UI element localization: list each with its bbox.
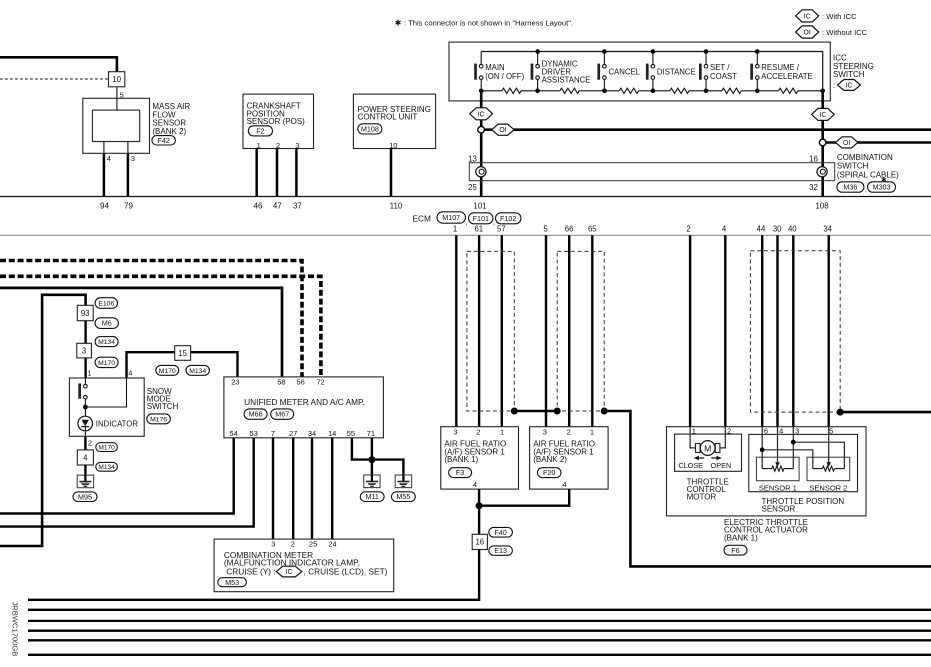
connector F40 <box>489 527 513 537</box>
svg-text:3: 3 <box>131 154 135 163</box>
svg-text:IC: IC <box>846 83 853 90</box>
svg-text:24: 24 <box>328 540 336 549</box>
svg-text:94: 94 <box>100 202 109 211</box>
resistor sensor 1 <box>762 468 772 470</box>
svg-text:3: 3 <box>453 428 457 437</box>
ground M55 <box>395 475 411 488</box>
junction dot inside snow switch <box>83 405 88 410</box>
junction dot TPS supply <box>760 447 765 452</box>
wire: ECM 61 to A/F bank1 pin 2 <box>478 235 480 426</box>
svg-text:INDICATOR: INDICATOR <box>96 419 139 428</box>
OI hexagon on right branch <box>836 137 858 148</box>
wire: switch top rail <box>481 52 823 91</box>
svg-text:F40: F40 <box>494 528 506 537</box>
svg-text:F102: F102 <box>500 214 516 223</box>
air fuel ratio sensor 1 bank 2 box <box>530 427 609 489</box>
wire: right switch drop to pin 108 <box>821 91 824 197</box>
combination switch (spiral cable) box <box>469 163 834 181</box>
IC hexagon label <box>838 80 861 91</box>
resistor sensor 2 <box>813 468 823 470</box>
wire: TPS shield to right edge <box>840 411 931 414</box>
svg-text:61: 61 <box>474 225 483 234</box>
svg-text:2: 2 <box>276 141 280 150</box>
junction dot grounds <box>368 456 375 463</box>
wire: meter 53 to left edge <box>0 438 254 527</box>
spiral cable symbol right <box>817 167 827 177</box>
svg-text::: : <box>833 81 835 90</box>
svg-text:CONTROL UNIT: CONTROL UNIT <box>358 113 418 122</box>
bottom rail line 6 <box>28 654 931 656</box>
wire: to ground M95 <box>84 465 86 475</box>
svg-text:27: 27 <box>289 429 297 438</box>
svg-text:M6: M6 <box>102 319 112 328</box>
wire: left loop to connector 93 and down to bottom left <box>0 295 86 546</box>
svg-text:OI: OI <box>843 140 850 147</box>
svg-text:2: 2 <box>567 428 571 437</box>
svg-text:(BANK 2): (BANK 2) <box>533 455 567 464</box>
wire: shield link between boxes <box>514 410 557 413</box>
wire: MAF pin 3 inside <box>127 142 129 154</box>
svg-text:M170: M170 <box>98 360 115 367</box>
svg-text:COAST: COAST <box>710 72 737 81</box>
shield dashed box around TPS wires <box>750 251 840 412</box>
svg-text:15: 15 <box>178 349 187 358</box>
svg-text:2: 2 <box>88 438 92 447</box>
svg-text:CANCEL: CANCEL <box>608 67 640 76</box>
wire: connector 16 down to bottom rail <box>28 550 479 600</box>
svg-text:E106: E106 <box>98 300 114 307</box>
svg-text:10: 10 <box>112 75 121 84</box>
wire: without-ICC branch right <box>826 141 931 144</box>
sensor 2 box <box>807 457 850 481</box>
switch S5 SET / <box>704 49 709 54</box>
svg-text:16: 16 <box>809 154 818 163</box>
wire: connector 10 to MAF sensor pin 5 <box>116 87 118 110</box>
svg-text:(BANK 2): (BANK 2) <box>152 127 186 136</box>
wire: branch to ground M55 <box>372 460 404 475</box>
svg-text:M95: M95 <box>78 492 92 501</box>
svg-text:1: 1 <box>87 368 91 377</box>
ground M11 <box>364 475 380 488</box>
svg-text:OI: OI <box>499 127 506 134</box>
connector M134 oval lower <box>96 462 118 471</box>
svg-text:55: 55 <box>347 429 355 438</box>
indicator LED symbol <box>84 407 86 416</box>
wire: snow switch pin 2 down <box>84 436 86 450</box>
svg-text:54: 54 <box>229 429 237 438</box>
svg-text:25: 25 <box>468 183 477 192</box>
svg-text:,: , <box>466 219 468 226</box>
svg-text:ECM: ECM <box>413 214 432 224</box>
svg-text:F42: F42 <box>158 136 170 145</box>
legend OI hexagon <box>796 26 819 38</box>
wire: ECM 34 to TPS pin 5 <box>828 235 830 426</box>
svg-text:M176: M176 <box>150 416 167 423</box>
ECM lower bus line <box>0 234 931 236</box>
svg-text:M53: M53 <box>225 578 239 587</box>
svg-text:M108: M108 <box>361 125 379 134</box>
connector M11 <box>360 492 384 502</box>
svg-text:72: 72 <box>316 378 324 387</box>
wire: left switch drop to pin 101 <box>480 91 483 197</box>
svg-text:M134: M134 <box>189 368 206 375</box>
junction dot shield 2 <box>554 408 561 415</box>
connector F42 <box>152 136 176 145</box>
svg-text:(ON / OFF): (ON / OFF) <box>485 72 524 81</box>
close arrow <box>699 457 705 459</box>
svg-text:3: 3 <box>271 540 275 549</box>
svg-text:53: 53 <box>250 429 258 438</box>
svg-text:F3: F3 <box>456 468 464 477</box>
wire: POS pin 3 to ECM 37 <box>295 149 298 197</box>
wire: POS pin 1 to ECM 46 <box>255 149 258 197</box>
wire: dashed line to connector 10 <box>0 78 109 80</box>
connector M170 oval mid <box>156 365 179 375</box>
svg-text:,: , <box>865 187 867 194</box>
switch S4 DISTANCE <box>651 49 656 54</box>
connector F6 <box>724 545 747 555</box>
svg-text:: This connector is not shown: : This connector is not shown in "Harnes… <box>404 18 573 27</box>
switch S3 CANCEL <box>602 49 607 54</box>
connector E13 <box>489 546 513 555</box>
svg-text:34: 34 <box>308 429 316 438</box>
svg-text:57: 57 <box>497 225 506 234</box>
svg-text:CRUISE (Y) :: CRUISE (Y) : <box>226 566 275 576</box>
combination meter box <box>214 539 394 592</box>
snow mode switch box <box>69 378 144 436</box>
wire: POS pin 2 to ECM 47 <box>276 149 279 197</box>
svg-text:108: 108 <box>815 202 829 211</box>
svg-text:4: 4 <box>562 480 566 489</box>
connector M66 <box>244 409 267 419</box>
svg-text:66: 66 <box>565 225 574 234</box>
svg-text:4: 4 <box>83 453 88 462</box>
svg-text:37: 37 <box>293 202 302 211</box>
wire: snow switch pin 4 internal <box>87 378 127 407</box>
wire: snow pin 4 to meter pin 23 <box>127 352 238 378</box>
svg-text:58: 58 <box>277 378 285 387</box>
wire: ECM 4 to throttle motor pin 2 <box>724 235 726 426</box>
wire: A/F bank2 pin 4 joining <box>479 489 569 506</box>
svg-text:1: 1 <box>590 428 594 437</box>
ICC steering switch outer box <box>449 42 830 101</box>
connector 15 (M170/M134) <box>175 346 191 361</box>
svg-text:101: 101 <box>473 202 487 211</box>
svg-text:25: 25 <box>309 540 317 549</box>
svg-text:16: 16 <box>475 538 484 547</box>
junction dot A/F grounds <box>476 502 483 509</box>
connector 3 (M134/M170) <box>77 343 92 358</box>
svg-text:,: , <box>493 219 495 226</box>
svg-text:47: 47 <box>273 202 282 211</box>
svg-text:3: 3 <box>295 141 299 150</box>
wire: ECM 57 to A/F bank1 pin 1 <box>501 235 503 426</box>
throttle control motor box <box>675 434 742 471</box>
connector M134 <box>95 337 118 347</box>
svg-text:56: 56 <box>297 378 305 387</box>
switch S1 MAIN <box>480 52 482 65</box>
svg-text:: With ICC: : With ICC <box>822 12 857 21</box>
connector M55 <box>392 492 416 502</box>
mass air flow sensor inner element box <box>92 110 139 141</box>
junction dot shield 3 <box>601 408 608 415</box>
connector F3 <box>449 468 472 478</box>
junction circle left <box>478 126 485 133</box>
svg-text:M107: M107 <box>442 213 460 222</box>
svg-text:13: 13 <box>468 154 477 163</box>
svg-text:SWITCH: SWITCH <box>147 402 179 411</box>
wire: meter 34 to combination meter 25 <box>311 438 313 540</box>
connector 93 (E106/M6) <box>77 305 93 320</box>
svg-text:30: 30 <box>773 225 782 234</box>
svg-text:110: 110 <box>390 202 403 211</box>
svg-text:(BANK 1): (BANK 1) <box>724 533 758 542</box>
motor M symbol <box>696 444 701 453</box>
wire: meter 71 to ground M11 <box>371 438 373 475</box>
svg-text:M134: M134 <box>98 339 115 346</box>
svg-text:M55: M55 <box>396 492 410 501</box>
connector 10 <box>109 72 125 87</box>
switch S6 RESUME / <box>755 49 760 54</box>
resistor R2 in ICC switch <box>560 88 579 93</box>
wire: shielded dashed pair to meter pin 56 <box>0 261 302 377</box>
wire: ECM 44 to TPS pin 6 <box>761 235 763 426</box>
snow mode switch contacts <box>84 378 86 384</box>
svg-text:3: 3 <box>543 428 547 437</box>
junction dot rail right end <box>820 89 825 94</box>
svg-text:10: 10 <box>389 141 397 150</box>
svg-text:M67: M67 <box>275 410 289 419</box>
wire: MAF pin 4 inside <box>103 142 105 154</box>
resistor R5 in ICC switch <box>722 88 741 93</box>
wire: motor pin 1 lead <box>690 427 695 448</box>
wire: meter 55 to ground join <box>352 438 372 460</box>
svg-text:M303: M303 <box>873 183 891 192</box>
svg-text:4: 4 <box>473 480 477 489</box>
wire: to snow mode switch pin 1 <box>84 358 86 378</box>
IC hexagon in combination meter <box>276 566 302 577</box>
wire: shield to right edge lower <box>604 411 931 566</box>
svg-text:UNIFIED METER AND A/C AMP.: UNIFIED METER AND A/C AMP. <box>244 397 365 407</box>
wire: PS pin 10 to ECM 110 <box>390 149 393 197</box>
svg-text:M134: M134 <box>98 464 115 471</box>
wire: meter 7 to combination meter 3 <box>272 438 274 540</box>
wire: meter 54 to left edge <box>0 438 234 514</box>
power steering control unit box <box>353 94 435 148</box>
svg-text:SENSOR: SENSOR <box>762 505 796 514</box>
svg-text:M66: M66 <box>249 410 263 419</box>
mass air flow sensor outer box <box>83 98 150 153</box>
junction circle right <box>819 139 826 146</box>
svg-text:ASSISTANCE: ASSISTANCE <box>542 75 591 84</box>
connector M53 <box>218 578 247 587</box>
svg-text:14: 14 <box>328 429 336 438</box>
resistor R1 in ICC switch <box>502 88 521 93</box>
bottom rail line 3 <box>28 620 931 622</box>
throttle position sensor box <box>749 434 858 491</box>
svg-text:IC: IC <box>819 112 826 119</box>
wire: solid line to meter pin 58 <box>0 288 282 377</box>
unified meter and A/C amp box <box>224 377 384 438</box>
resistor R3 in ICC switch <box>619 88 638 93</box>
svg-text:65: 65 <box>588 225 597 234</box>
svg-text:M170: M170 <box>98 445 115 452</box>
resistor R6 in ICC switch <box>779 88 798 93</box>
svg-text:34: 34 <box>823 225 832 234</box>
connector 4 (M170/M134) <box>77 450 93 465</box>
wire: sheet continuation thick line top-left <box>0 57 117 71</box>
connector M134 oval mid <box>186 365 209 375</box>
svg-text:CLOSE: CLOSE <box>678 461 703 470</box>
svg-text:ACCELERATE: ACCELERATE <box>761 72 812 81</box>
svg-text:OI: OI <box>803 30 810 37</box>
svg-text:OPEN: OPEN <box>711 461 732 470</box>
connector E106 <box>95 298 117 309</box>
crankshaft position sensor box <box>243 94 314 148</box>
svg-text:IC: IC <box>804 13 811 20</box>
svg-text:3: 3 <box>82 346 86 355</box>
resistor R4 in ICC switch <box>670 88 689 93</box>
svg-text:4: 4 <box>722 225 727 234</box>
wire: TPS pin3 into sensors <box>792 427 794 443</box>
connector 16 (F40/E13) <box>472 534 487 549</box>
svg-text:F20: F20 <box>543 468 555 477</box>
wire: TPS pin6 into sensors <box>761 427 763 450</box>
connector M67 <box>271 409 294 419</box>
connector F20 <box>537 468 561 478</box>
wire: meter 27 to combination meter 2 <box>292 438 294 540</box>
svg-text:, CRUISE (LCD), SET): , CRUISE (LCD), SET) <box>304 566 388 576</box>
shield dashed box around A/F bank2 wires <box>557 251 604 411</box>
svg-text:1: 1 <box>453 225 457 234</box>
svg-text:46: 46 <box>254 202 263 211</box>
sensor 1 box <box>756 457 799 481</box>
svg-text:M36: M36 <box>843 183 857 192</box>
wire: A/F bank1 pin 4 down <box>478 489 480 534</box>
connector M36 <box>837 182 864 192</box>
connector M170 <box>95 357 118 367</box>
svg-text:M11: M11 <box>365 492 378 501</box>
svg-text:JRBWC1700GB: JRBWC1700GB <box>11 602 20 657</box>
svg-text:E13: E13 <box>494 546 507 555</box>
svg-text:2: 2 <box>291 540 295 549</box>
wire: MAF pin 4 to ECM pin 94 <box>103 153 106 196</box>
bottom rail line 5 <box>28 639 931 641</box>
wire: ECM 65 to A/F bank2 pin 1 <box>591 235 593 426</box>
svg-text:F2: F2 <box>256 126 264 135</box>
wire: without-ICC branch left <box>484 128 931 131</box>
connector M303 <box>868 182 896 192</box>
svg-text:F6: F6 <box>731 546 739 555</box>
IC hexagon on left drop <box>470 108 493 120</box>
air fuel ratio sensor 1 bank 1 box <box>441 427 519 489</box>
svg-text:IC: IC <box>478 111 485 118</box>
wire: ECM 30 to TPS pin 4 <box>776 235 778 426</box>
wire: shielded dashed pair to meter pin 72 <box>0 276 321 377</box>
connector M6 <box>95 318 118 329</box>
switch S2 DYNAMIC <box>535 49 540 54</box>
wire: ECM 2 to throttle motor pin 1 <box>689 235 691 426</box>
svg-text:7: 7 <box>271 429 275 438</box>
wire: MAF pin 3 to ECM pin 79 <box>127 153 130 196</box>
svg-text:40: 40 <box>788 225 797 234</box>
connector M170 oval lower <box>96 443 118 452</box>
junction dot shield 1 <box>511 408 518 415</box>
svg-text:M170: M170 <box>159 368 176 375</box>
svg-text:SENSOR 2: SENSOR 2 <box>809 483 847 492</box>
svg-text:1: 1 <box>500 428 504 437</box>
svg-text:44: 44 <box>757 225 766 234</box>
svg-text:71: 71 <box>367 429 375 438</box>
connector M176 <box>147 414 171 424</box>
svg-text:23: 23 <box>231 378 239 387</box>
svg-text:MOTOR: MOTOR <box>687 493 717 502</box>
wiper arrow sensor 1 <box>777 427 779 463</box>
svg-text:F101: F101 <box>473 214 489 223</box>
ground M95 <box>77 475 93 488</box>
svg-text:2: 2 <box>476 428 480 437</box>
shield dashed box around A/F bank1 wires <box>467 251 514 411</box>
svg-text:SWITCH: SWITCH <box>833 70 865 79</box>
svg-text:32: 32 <box>809 183 818 192</box>
ECM top bus line <box>0 196 931 198</box>
wire: ECM 40 to TPS pin 3 <box>792 235 794 426</box>
svg-text:(SPIRAL CABLE): (SPIRAL CABLE) <box>837 170 899 179</box>
wire: motor pin 2 lead <box>720 427 725 448</box>
wire: connector 93 to connector 3 <box>84 321 86 344</box>
connector M108 <box>358 124 382 134</box>
wire: ECM 5 to A/F bank2 pin 3 <box>545 235 547 426</box>
svg-text:93: 93 <box>81 309 90 318</box>
wire: switch bottom rail <box>481 90 502 92</box>
svg-text:79: 79 <box>124 202 133 211</box>
open arrow <box>711 457 717 459</box>
svg-text:: Without ICC: : Without ICC <box>822 28 868 37</box>
OI hexagon on left branch <box>492 124 514 135</box>
wire: ECM 66 to A/F bank2 pin 2 <box>568 235 570 426</box>
svg-text:(BANK 1): (BANK 1) <box>444 455 478 464</box>
bottom rail line 2 <box>28 609 931 611</box>
svg-text:DISTANCE: DISTANCE <box>657 67 696 76</box>
svg-text:2: 2 <box>686 225 690 234</box>
wiper arrow sensor 2 <box>828 427 830 463</box>
connector M95 <box>73 492 97 502</box>
svg-text:✱: ✱ <box>395 19 402 28</box>
svg-text:IC: IC <box>286 569 293 576</box>
svg-text:SENSOR 1: SENSOR 1 <box>759 483 797 492</box>
IC hexagon on right drop <box>812 108 835 120</box>
bottom rail line 4 <box>28 630 931 632</box>
svg-text:SENSOR (POS): SENSOR (POS) <box>247 117 306 126</box>
wire: ECM 1 to A/F sensor bank1 pin 3 <box>455 235 457 426</box>
spiral cable symbol left <box>476 167 486 177</box>
svg-text:4: 4 <box>128 368 132 377</box>
wire: meter 14 to combination meter 24 <box>331 438 333 540</box>
svg-text:4: 4 <box>107 154 111 163</box>
junction dot shield 4 <box>837 409 844 416</box>
legend IC hexagon <box>796 10 819 22</box>
junction dot TPS ground <box>791 440 796 445</box>
connector F2 <box>248 126 272 136</box>
svg-text:M: M <box>704 444 711 454</box>
svg-text:1: 1 <box>257 141 261 150</box>
svg-text:,: , <box>269 415 271 422</box>
electric throttle control actuator outer box <box>667 427 867 516</box>
svg-text:5: 5 <box>543 225 548 234</box>
